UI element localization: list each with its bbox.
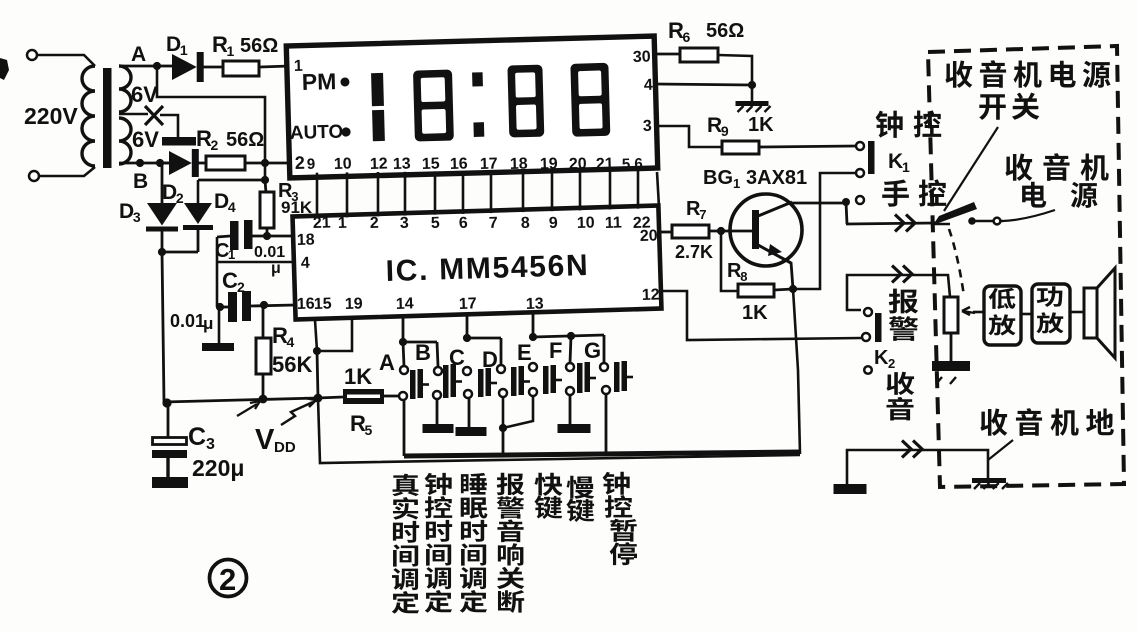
resistor R4 — [256, 338, 271, 374]
label baojing (alarm) — [889, 289, 919, 341]
key switch B — [434, 367, 442, 375]
junction R6/pin4 — [748, 81, 756, 89]
wire node A to D1 — [157, 65, 173, 68]
key switch A — [400, 366, 408, 374]
wire contact to selector — [846, 202, 847, 224]
wire R4 top — [262, 305, 265, 338]
svg-text:13: 13 — [526, 296, 544, 314]
svg-text:D: D — [119, 200, 134, 223]
svg-text:17: 17 — [480, 156, 498, 173]
label difang (preamp) — [988, 288, 1015, 336]
transformer T1 secondary winding upper 6V — [119, 66, 131, 112]
wire emitter down — [791, 262, 793, 289]
keyboard bottom bus — [404, 452, 800, 456]
VDD pointer arrows — [237, 401, 260, 416]
wire C1 left — [217, 236, 230, 237]
wire R6 to junction — [718, 55, 752, 101]
svg-text:0.01: 0.01 — [170, 311, 205, 331]
svg-text:D: D — [166, 33, 181, 56]
display digit 1 — [371, 73, 384, 106]
switch K2 bottom contact — [862, 333, 870, 341]
label shouyinji di (radio ground) — [980, 408, 1113, 436]
svg-text:2: 2 — [176, 190, 184, 206]
svg-text:C: C — [449, 345, 465, 370]
wire D4 to R3 top — [198, 179, 265, 182]
svg-text:IC. MM5456N: IC. MM5456N — [385, 249, 590, 288]
junction R4/VDD — [259, 395, 268, 404]
svg-text:12: 12 — [642, 286, 660, 304]
wire secondary bottom to node B — [119, 162, 170, 165]
junction R3 top — [261, 176, 269, 184]
svg-text:7: 7 — [699, 207, 706, 222]
op IC MM5456N — [292, 205, 661, 320]
node B junctions — [136, 159, 144, 167]
display digit 8 (minutes tens) — [507, 65, 544, 138]
switch F to ground — [569, 395, 572, 424]
label shouyin (radio) — [886, 372, 914, 421]
keyboard bus A-B — [399, 338, 407, 346]
svg-text:12: 12 — [370, 156, 388, 173]
label radio power switch line1 — [945, 60, 1110, 88]
switch K2 contact bar — [875, 313, 882, 342]
svg-text:7: 7 — [489, 215, 499, 232]
svg-text:3AX81: 3AX81 — [746, 167, 807, 189]
switch K2 top contact — [864, 308, 872, 316]
wire C2 ground — [218, 307, 221, 343]
svg-text:0.01: 0.01 — [254, 244, 285, 261]
wire pin30 to R6 — [654, 53, 680, 56]
wire display corner to IC corner — [657, 172, 659, 207]
svg-text:A: A — [379, 350, 395, 375]
svg-text:A: A — [131, 43, 146, 66]
manual control contact junction — [842, 198, 850, 206]
svg-text:1K: 1K — [742, 302, 768, 324]
svg-text:8: 8 — [740, 269, 747, 284]
IC pin15/19 wires — [315, 320, 317, 351]
svg-text:4: 4 — [644, 77, 653, 94]
svg-text:20: 20 — [569, 156, 587, 173]
svg-text:6: 6 — [683, 29, 691, 45]
label zhongkong (clock control) — [876, 110, 942, 137]
svg-text:6V: 6V — [132, 127, 159, 152]
resistor R1 — [223, 61, 259, 76]
wire IC pin4 across — [217, 261, 295, 264]
collector lead — [758, 202, 792, 216]
svg-text:10: 10 — [577, 214, 595, 232]
svg-text:1: 1 — [902, 159, 910, 175]
svg-text:18: 18 — [510, 156, 528, 173]
node A junction — [153, 62, 161, 70]
wire C2 left — [217, 306, 228, 309]
transformer primary terminal bottom — [29, 171, 39, 181]
svg-text:2: 2 — [211, 137, 219, 153]
wire secondary top to node A — [119, 65, 160, 68]
wire R1 to display pin 1 — [260, 66, 290, 67]
wire D2 to R2 — [196, 162, 207, 165]
switch G to bus — [605, 394, 608, 452]
svg-text:E: E — [517, 340, 532, 365]
svg-text:13: 13 — [393, 155, 411, 172]
svg-text:5: 5 — [365, 422, 373, 438]
svg-text:D: D — [482, 347, 498, 372]
ground below C2 — [202, 343, 234, 351]
display to IC connector wires — [316, 173, 319, 219]
wire amp to amp — [1021, 313, 1032, 316]
svg-text:16: 16 — [297, 295, 315, 313]
wire node B to D2 — [160, 162, 170, 165]
diode D4 — [184, 203, 212, 224]
wire R5 to switch A — [384, 395, 398, 398]
svg-text:56Ω: 56Ω — [706, 20, 744, 42]
svg-text:1: 1 — [180, 42, 188, 58]
junction R3 bottom — [263, 232, 271, 240]
wire left rail down — [162, 252, 164, 402]
resistor R3 — [260, 192, 274, 228]
svg-text:μ: μ — [203, 314, 213, 333]
ground below C3 — [152, 477, 188, 488]
svg-text:B: B — [415, 340, 431, 365]
IC pin17 wire — [466, 315, 469, 338]
wire R8 to emitter junction — [774, 289, 793, 290]
label slow key — [566, 476, 594, 522]
resistor R9 — [722, 141, 759, 154]
label radio power line2 — [1022, 182, 1097, 208]
key switch C — [463, 367, 471, 375]
wire pin3 to R9 — [656, 126, 722, 147]
resistor R6 — [680, 48, 718, 62]
svg-text:15: 15 — [314, 295, 332, 313]
svg-text:3: 3 — [643, 118, 652, 135]
wire R4 bottom — [262, 374, 265, 400]
volume pot — [944, 297, 958, 333]
wire collector to contacts — [791, 202, 843, 205]
svg-text:30: 30 — [633, 49, 651, 66]
resistor R5 (solid) — [343, 389, 384, 404]
junction R2/R3 — [261, 159, 269, 167]
wire — [37, 55, 95, 66]
transistor BG1 3AX81 — [730, 194, 802, 266]
resistor R2 — [206, 156, 245, 170]
diode D1 — [172, 54, 197, 80]
svg-text:4: 4 — [301, 255, 311, 272]
wire pin14 to switch A — [403, 342, 404, 366]
svg-text:K: K — [888, 150, 903, 173]
junction rail right — [314, 394, 323, 403]
AUTO indicator dot — [341, 127, 350, 136]
switch A down to bus — [403, 400, 406, 456]
svg-text:D: D — [214, 190, 229, 213]
display digit 8 (hours) — [413, 70, 454, 142]
svg-text:PM: PM — [301, 68, 336, 95]
switch D/E join to bus — [503, 396, 533, 428]
keyboard bus E-F-G — [529, 333, 537, 341]
scan artifact left edge — [0, 58, 9, 80]
ground radio — [972, 478, 1006, 483]
svg-text:K: K — [874, 347, 889, 369]
capacitor C2 — [228, 292, 237, 322]
svg-text:2: 2 — [295, 153, 306, 173]
IC pin14 wire — [402, 316, 405, 342]
pot wiper arrow — [962, 307, 975, 315]
knife switch contacts — [968, 217, 976, 225]
wire pot bottom to ground — [950, 333, 953, 363]
svg-text:4: 4 — [228, 199, 236, 215]
pointer to ground — [988, 440, 1013, 460]
key switch G — [600, 363, 608, 371]
label true time set — [392, 474, 419, 614]
bottom wire to radio ground — [847, 450, 988, 484]
svg-text:19: 19 — [345, 295, 363, 313]
wire rail to R5 — [318, 397, 343, 398]
display digit 8 (minutes units) — [570, 63, 610, 137]
manual control contact right — [856, 196, 864, 204]
ground below pot — [932, 361, 970, 371]
svg-text:56K: 56K — [272, 352, 312, 377]
knife switch blade — [933, 202, 977, 225]
svg-text:18: 18 — [297, 231, 315, 249]
diode D2 — [169, 151, 192, 175]
svg-text:8: 8 — [521, 215, 531, 232]
svg-text:1K: 1K — [344, 364, 372, 389]
junction C2 left — [216, 303, 224, 311]
wire R2 to display pin 2 — [245, 162, 290, 165]
wire R3 to IC pin 18 — [266, 228, 269, 236]
label clock time set — [425, 473, 453, 613]
switch K1 bottom contact — [856, 169, 864, 177]
svg-text:15: 15 — [422, 155, 440, 172]
capacitor C3 — [167, 402, 170, 437]
svg-text:3: 3 — [206, 436, 215, 453]
open contact — [864, 366, 872, 374]
dashed radio enclosure — [928, 46, 1124, 487]
ground below R6 — [736, 101, 769, 106]
mechanical link dashed — [949, 229, 964, 296]
wire R7 to base — [709, 230, 752, 233]
svg-text:10: 10 — [334, 155, 352, 172]
label shoukong (manual control) — [882, 179, 946, 206]
power amp box — [1032, 284, 1070, 343]
wire R9 to K1 — [759, 146, 855, 147]
svg-text:2: 2 — [237, 279, 245, 295]
center tap wire — [119, 113, 148, 116]
switch B to ground — [436, 399, 439, 424]
VDD rail wire — [164, 398, 318, 402]
svg-text:G: G — [584, 338, 601, 363]
svg-text:C: C — [222, 268, 238, 293]
wire emitter node to K1 bottom — [793, 173, 855, 289]
wire node A down and across — [157, 66, 265, 180]
wire — [39, 167, 95, 176]
junction base/R8 — [717, 227, 725, 235]
svg-text:2: 2 — [370, 215, 380, 232]
svg-text:5: 5 — [431, 215, 441, 232]
keyboard bus C-D — [463, 334, 471, 342]
pointer line from switch label — [944, 127, 998, 211]
label clock pause — [603, 472, 637, 565]
svg-text:11: 11 — [605, 215, 623, 233]
svg-text:D: D — [162, 181, 177, 204]
wire D4 top — [197, 180, 200, 203]
svg-text:1: 1 — [338, 215, 348, 232]
resistor R7 — [672, 225, 709, 238]
wire B to D3 — [161, 163, 164, 203]
svg-text:9: 9 — [549, 215, 559, 232]
transformer T1 secondary winding lower 6V — [119, 118, 131, 164]
label sleep time set — [460, 473, 488, 613]
svg-text:3: 3 — [133, 209, 141, 225]
svg-text:B: B — [133, 170, 148, 193]
svg-text:9: 9 — [721, 123, 729, 139]
resistor R8 — [738, 284, 774, 297]
wire D3/D4 join — [161, 228, 164, 252]
diode D3 — [147, 203, 177, 226]
wire C1 right to R3 node — [252, 235, 267, 238]
svg-text:6: 6 — [459, 215, 469, 232]
label fast key — [534, 473, 562, 519]
svg-text:2: 2 — [219, 562, 236, 597]
svg-text:14: 14 — [396, 295, 414, 313]
switch K1 top contact — [856, 142, 864, 150]
svg-text:56Ω: 56Ω — [240, 35, 278, 57]
svg-text:56Ω: 56Ω — [226, 129, 264, 151]
key switch E — [529, 363, 537, 371]
wire IC pin12 to K2 — [661, 291, 861, 340]
key switch F — [566, 363, 574, 371]
ground left — [834, 484, 867, 494]
junction rail left — [162, 398, 171, 407]
svg-text:V: V — [255, 424, 275, 456]
label gongfang (power amp) — [1036, 286, 1063, 333]
svg-text:6V: 6V — [131, 82, 158, 107]
label radio power switch line2 — [979, 93, 1039, 120]
label radio power line1 — [1005, 153, 1108, 181]
switch K1 contact bar — [868, 141, 875, 174]
figure number circled 2 — [210, 560, 247, 597]
low amp box — [984, 286, 1021, 345]
svg-text:20: 20 — [640, 227, 658, 245]
svg-text:C: C — [188, 423, 206, 451]
junction C2 right — [260, 301, 268, 309]
IC pin13 wire — [532, 313, 535, 337]
svg-text:1: 1 — [733, 176, 740, 191]
wire C1 down — [216, 237, 219, 307]
svg-text:21: 21 — [313, 214, 331, 232]
wire R3 top lead — [265, 180, 266, 193]
svg-text:1: 1 — [228, 247, 235, 262]
svg-text:1: 1 — [227, 43, 235, 59]
capacitor C1 — [230, 221, 239, 250]
display colon — [472, 72, 483, 86]
svg-text:220μ: 220μ — [192, 455, 244, 481]
wire pot to amp — [973, 311, 984, 314]
svg-text:19: 19 — [540, 156, 558, 173]
center tap X mark — [145, 106, 163, 125]
svg-text:9: 9 — [307, 156, 316, 173]
svg-text:16: 16 — [450, 156, 468, 173]
svg-text:AUTO: AUTO — [290, 122, 344, 144]
PM indicator dot — [340, 77, 349, 86]
wire D1 to R1 — [203, 66, 223, 69]
svg-text:R: R — [707, 114, 722, 137]
switch C to ground — [468, 398, 471, 427]
pointer curve to radio power — [1003, 210, 1055, 221]
junction emitter/R8 — [789, 285, 797, 293]
svg-text:1K: 1K — [748, 114, 774, 136]
junction D3/D4 — [158, 248, 166, 256]
transformer primary terminal top — [27, 50, 37, 60]
svg-text:BG: BG — [703, 167, 733, 189]
wire pin20 to R7 — [661, 231, 673, 234]
svg-text:3: 3 — [400, 215, 410, 232]
key switch D — [497, 365, 505, 373]
svg-text:17: 17 — [459, 295, 477, 313]
digital display module — [286, 36, 658, 182]
emitter lead with arrow — [758, 245, 791, 263]
svg-text:220V: 220V — [24, 103, 78, 129]
wire base node down to R8 — [721, 231, 738, 291]
svg-text:F: F — [549, 338, 562, 363]
center tap stub bar — [162, 137, 196, 146]
label alarm sound off — [497, 473, 525, 613]
wire amp to speaker — [1070, 311, 1084, 314]
wire C2 right to IC pin 16 — [251, 305, 295, 306]
speaker — [1084, 288, 1097, 338]
wire emitter node down to bus — [793, 289, 800, 454]
transformer T1 primary winding — [82, 66, 95, 166]
svg-text:2: 2 — [888, 356, 895, 371]
svg-text:DD: DD — [274, 439, 296, 456]
wire pin4 to junction — [655, 84, 752, 85]
svg-text:2.7K: 2.7K — [675, 242, 713, 262]
center tap stub wire — [160, 115, 178, 137]
wire alarm riser — [847, 275, 950, 310]
svg-text:4: 4 — [287, 334, 295, 350]
transformer core — [103, 68, 112, 168]
lower bus from VDD rail — [318, 398, 800, 463]
svg-text:5.6: 5.6 — [622, 155, 643, 173]
